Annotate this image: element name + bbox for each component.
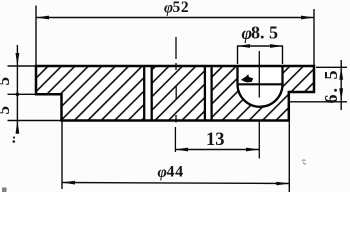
svg-text:6. 5: 6. 5 <box>321 69 341 104</box>
svg-text:5: 5 <box>0 77 13 86</box>
svg-text:8. 5: 8. 5 <box>251 23 278 43</box>
svg-text:φ: φ <box>158 164 167 181</box>
svg-text:52: 52 <box>173 0 190 16</box>
svg-text:44: 44 <box>167 164 184 181</box>
svg-text:5: 5 <box>0 106 13 115</box>
svg-text:13: 13 <box>206 130 225 150</box>
